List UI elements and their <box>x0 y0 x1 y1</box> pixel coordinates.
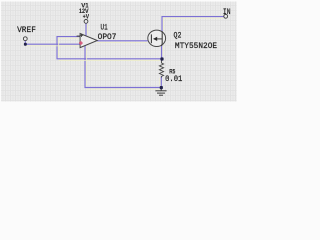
svg-text:MTY55N2OE: MTY55N2OE <box>175 42 217 51</box>
junction node ground <box>160 86 163 89</box>
svg-text:IN: IN <box>223 9 231 17</box>
wire V1 +V supply to op-amp V+ <box>85 23 87 35</box>
svg-text:+V: +V <box>83 13 90 20</box>
op-amp plus mark (dark, top) <box>80 34 83 37</box>
wire VREF to op-amp + input <box>25 43 80 45</box>
MOSFET channel mid line <box>157 38 162 40</box>
op-amp inverting input stub <box>77 35 80 37</box>
schematic background grid <box>1 2 237 102</box>
svg-text:Q2: Q2 <box>174 32 182 40</box>
wire MOSFET drain up and right to IN terminal <box>162 17 224 32</box>
MOSFET drain stub <box>161 31 163 33</box>
MOSFET gate bar <box>150 34 152 43</box>
VREF terminal stub <box>24 41 26 44</box>
MOSFET channel bar <box>161 33 163 44</box>
MOSFET source stub <box>161 44 163 46</box>
wire feedback bottom run from source node <box>57 37 162 59</box>
svg-text:U1: U1 <box>101 24 108 32</box>
ground symbol <box>155 88 166 96</box>
IN terminal circle <box>224 14 228 18</box>
resistor R5 zigzag <box>159 60 163 78</box>
wire op-amp output to MOSFET gate <box>97 40 148 42</box>
svg-text:OPO7: OPO7 <box>98 34 117 42</box>
MOSFET arrow (points left) <box>153 37 157 41</box>
VREF terminal circle <box>23 37 27 41</box>
junction node source/feedback <box>160 57 163 60</box>
V1 terminal circle <box>84 20 88 24</box>
MOSFET Q2 body circle <box>148 30 166 46</box>
op-amp plus mark (red, + input) <box>79 41 83 45</box>
junction node VREF <box>24 43 27 46</box>
svg-text:VREF: VREF <box>17 27 36 35</box>
wire R5 bottom lead to ground node <box>160 77 162 88</box>
svg-text:0.01: 0.01 <box>165 75 182 84</box>
wire MOSFET source to sense node <box>161 45 163 59</box>
compression-artifact yellow fringes along wires <box>27 18 223 89</box>
wire op-amp V- down and to ground node <box>85 46 161 88</box>
op-amp U1 triangle <box>80 34 97 48</box>
